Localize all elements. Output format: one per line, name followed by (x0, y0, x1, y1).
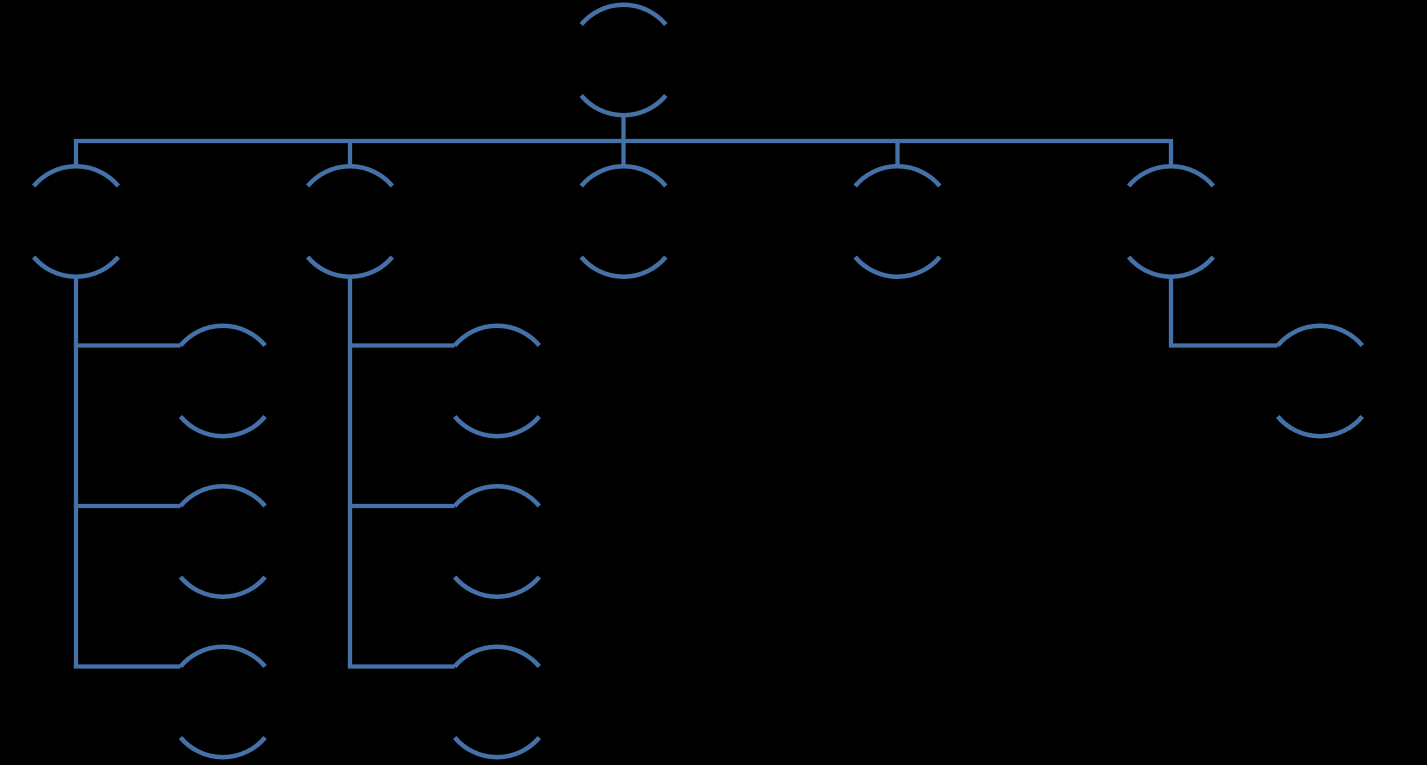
node 2 child 2 circle (455, 486, 540, 596)
node 1 child 1 circle (181, 326, 266, 436)
node 4 circle (855, 166, 940, 276)
wire: stub to node 4 (895, 141, 899, 167)
node 1 circle (34, 166, 119, 276)
wire: hanging rail under node 1 (74, 277, 78, 669)
wire: branch node2-child2 (348, 504, 455, 508)
wire: branch node1-child3 (74, 664, 181, 668)
wire: branch node2-child1 (348, 343, 455, 347)
wire: bus from node L0 spanning level 1 with end stubs (76, 141, 1171, 167)
node 1 child 3 circle (181, 647, 266, 757)
wire: branch node1-child1 (74, 343, 181, 347)
wire: vertical from top node through bus to node 3 (621, 115, 625, 167)
node 5 circle (1129, 166, 1214, 276)
wire: branch node1-child2 (74, 504, 181, 508)
node 3 circle (581, 166, 666, 276)
wire: hanging rail under node 2 (348, 277, 352, 669)
node 2 circle (308, 166, 393, 276)
node 2 child 3 circle (455, 647, 540, 757)
wire: branch node2-child3 (348, 664, 455, 668)
node L0 root circle (581, 5, 666, 115)
node 2 child 1 circle (455, 326, 540, 436)
wire: elbow from node 5 to its child (1171, 277, 1278, 346)
node 5 child 1 circle (1278, 326, 1363, 436)
node 1 child 2 circle (181, 486, 266, 596)
wire: stub to node 1 (348, 141, 352, 167)
